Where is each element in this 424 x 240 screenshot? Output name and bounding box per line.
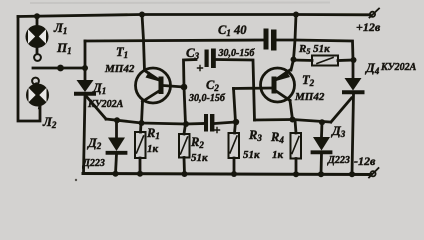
node: D3 bottom rail dot [318, 171, 324, 177]
wire D4 gate diagonal [331, 98, 352, 122]
wire C1 right to D4 anode [277, 39, 296, 42]
wire left edge (lamp L2 return to top rail) [18, 17, 40, 122]
svg-text:51к: 51к [243, 149, 260, 161]
resistor R4 [291, 120, 302, 174]
capacitor C2 [204, 114, 236, 133]
svg-text:МП42: МП42 [294, 91, 325, 103]
node: T1 base junction dot [181, 84, 188, 91]
wire T2 emitter to rail [291, 15, 296, 71]
svg-text:КУ202А: КУ202А [380, 62, 417, 73]
wire T1 base riser down [184, 87, 186, 124]
node: R1 top dot [139, 120, 145, 126]
svg-text:1к: 1к [147, 143, 159, 155]
lamp L1 [27, 16, 47, 54]
resistor R5 [294, 56, 354, 66]
lamp L2 [28, 84, 48, 108]
stray ink dot [75, 179, 77, 181]
transistor T1 [136, 68, 185, 103]
switch P1 arm [33, 65, 85, 72]
node: R2 bottom rail dot [182, 171, 188, 177]
wire T2 collector down [290, 101, 293, 120]
capacitor C3 [198, 49, 216, 71]
switch P1 upper contact [34, 54, 41, 61]
wire T2 base riser [234, 89, 236, 123]
svg-text:+12в: +12в [356, 20, 381, 34]
svg-text:МП42: МП42 [104, 63, 135, 75]
wire commutating (C1) horizontal left span [85, 40, 263, 41]
wire D1 cathode down to bottom rail [84, 95, 86, 174]
wire T2 collector bus (right horizontal) [293, 120, 331, 123]
diode D2 [108, 120, 126, 174]
node: R3 bottom rail dot [231, 171, 237, 177]
svg-text:30,0-15б: 30,0-15б [188, 93, 226, 104]
wire T1 collector down [142, 102, 143, 124]
svg-text:КУ202А: КУ202А [87, 99, 124, 110]
terminal +12V [370, 9, 380, 18]
svg-text:Д223: Д223 [82, 158, 105, 169]
background paper [0, 0, 424, 187]
capacitor C1 [264, 29, 277, 51]
node: switch arm to D1 anode junction dot [82, 65, 88, 71]
node: D2 anode dot [114, 117, 120, 123]
node: D4 bottom rail dot [349, 171, 355, 177]
wire T1 collector bus (left horizontal) [106, 119, 204, 124]
node: R5 right / D4 anode dot [351, 57, 357, 63]
node: D3 top dot [319, 119, 325, 125]
node: T2 collector / R4 dot [290, 117, 296, 123]
node: +12 rail to T2 emitter dot [293, 12, 299, 18]
node: R4 bottom rail dot [293, 171, 299, 177]
wire T1 emitter to rail [142, 15, 145, 71]
wire C3 left riser [184, 60, 197, 88]
top rail +12V wire [18, 15, 370, 17]
node: R1 bottom rail dot [137, 171, 143, 177]
svg-text:1к: 1к [272, 149, 284, 161]
svg-text:51к: 51к [191, 152, 208, 164]
svg-text:30,0-15б: 30,0-15б [218, 48, 256, 59]
node: R5 left dot [291, 57, 297, 63]
bottom rail -12V wire [83, 174, 371, 175]
resistor R2 [179, 124, 190, 174]
resistor R1 [135, 123, 146, 174]
node: T1 emitter to top rail dot [139, 12, 145, 18]
node: D2 bottom rail dot [113, 171, 119, 177]
resistor R3 [229, 122, 240, 174]
diode D3 [313, 122, 331, 174]
wire C3 riser to T2 collector node [255, 118, 293, 121]
node: R2 top / T1 base riser dot [183, 121, 189, 127]
switch P1 lower contact [32, 78, 39, 85]
svg-text:Д223: Д223 [327, 155, 350, 166]
svg-text:-12в: -12в [354, 154, 376, 168]
svg-text:С1 40: С1 40 [218, 23, 247, 38]
wire D1 anode vertical [84, 41, 87, 80]
thyristor D1 [76, 80, 94, 94]
node: C2 right / R3 top dot [233, 119, 239, 125]
wire D1 gate diagonal [87, 97, 107, 120]
svg-text:R5 51к: R5 51к [298, 43, 330, 56]
node: lamp L1 to top rail junction dot [34, 13, 40, 19]
wire C3 right riser [216, 60, 255, 121]
thyristor D4 [344, 60, 363, 174]
terminal -12V [369, 168, 379, 178]
transistor T2 [234, 68, 295, 102]
